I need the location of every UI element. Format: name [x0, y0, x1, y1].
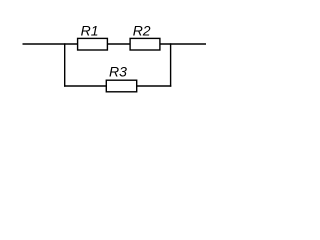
wire: bottom branch horizontal [64, 85, 171, 87]
svg-text:R3: R3 [109, 64, 127, 80]
wire: right branch vertical [170, 43, 172, 86]
resistor R2 [130, 22, 160, 50]
wire: left branch vertical [64, 43, 66, 86]
wire: main horizontal net [23, 43, 207, 45]
svg-text:R2: R2 [133, 22, 151, 38]
resistor R3 [106, 64, 136, 92]
resistor R1 [78, 22, 108, 50]
svg-text:R1: R1 [81, 22, 99, 38]
